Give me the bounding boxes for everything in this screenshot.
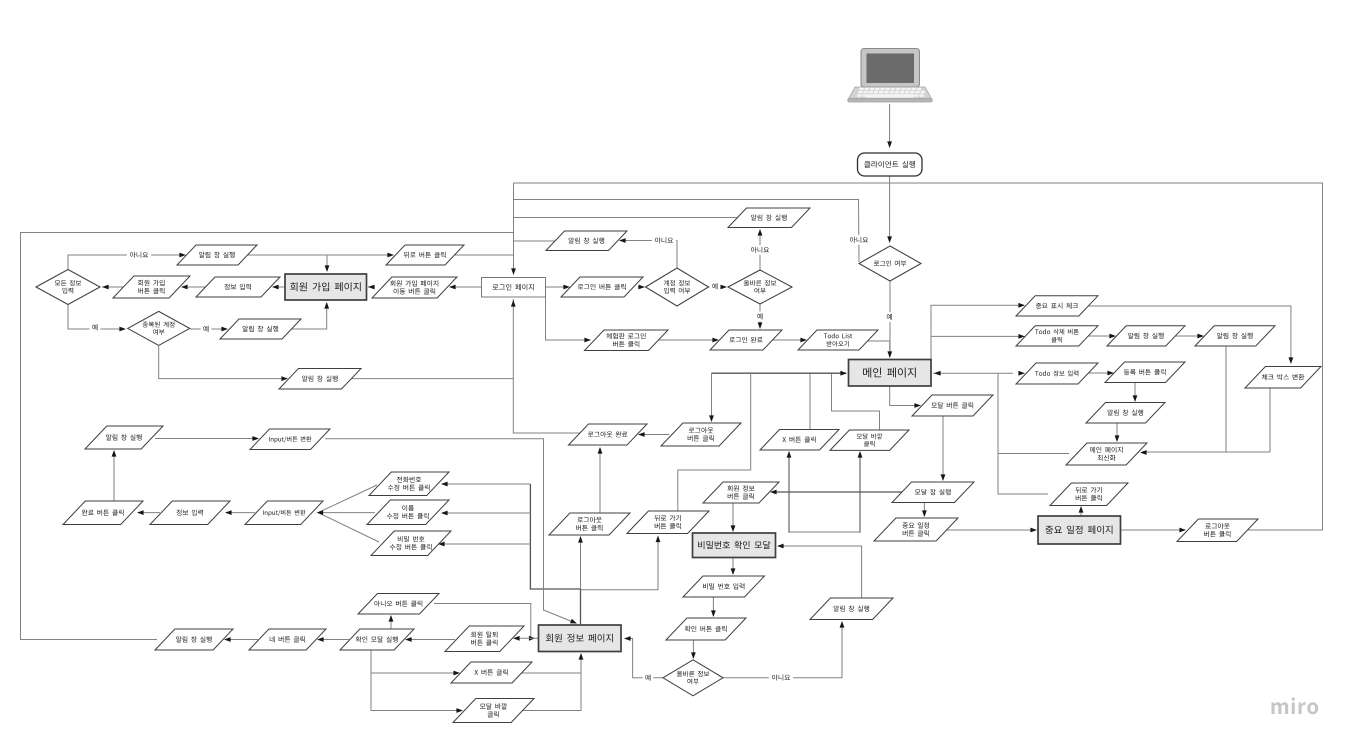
wire valid2 yes branch xyxy=(625,639,663,678)
arrowhead into main page left xyxy=(840,371,847,376)
node pw confirm modal 비밀번호 확인 모달 xyxy=(693,533,776,558)
arrowhead into alert-left right edge xyxy=(619,238,626,243)
io P47 알림 창 실행 xyxy=(155,629,233,650)
decision D1 모든 정보 입력 xyxy=(36,270,100,305)
wire withdraw to confirm-modal xyxy=(407,639,455,641)
wire member-info-button to pw modal xyxy=(732,503,734,531)
wire alert P37 to pw modal xyxy=(778,546,862,598)
wire info-input to signup-button xyxy=(183,286,206,288)
io P16 알림 창 실행 xyxy=(1107,326,1185,346)
wire x-button2 riser xyxy=(521,654,581,673)
decision D3 계정 정보 입력 여부 xyxy=(646,268,709,306)
wire input-transform-top to member-info xyxy=(325,439,576,623)
io P50 회원 탈퇴 버튼 클릭 xyxy=(445,626,524,652)
wire todo-delete to alert xyxy=(1087,335,1114,337)
wire pw modal to pw-input xyxy=(732,557,734,574)
io P2 뒤로 버튼 클릭 xyxy=(386,245,464,265)
arrowhead into main page right xyxy=(934,371,941,376)
io P14 중요 표시 체크 xyxy=(1016,296,1098,316)
io P40 완료 버튼 클릭 xyxy=(63,501,143,525)
node member info page 회원 정보 페이지 xyxy=(539,625,622,652)
wire alert P17 down xyxy=(1225,346,1227,452)
arrowhead into x-button bottom xyxy=(787,451,792,458)
wire back-button riser to main xyxy=(678,373,751,511)
wire member-info to fans riser xyxy=(530,484,580,624)
wire name-edit diagonal xyxy=(318,512,375,514)
wire member-info to logout-left xyxy=(580,537,582,589)
arrowhead into pw-input top xyxy=(731,568,736,575)
io P33 로그아웃 버튼 클릭 xyxy=(549,513,630,535)
arrowhead into confirm-modal right xyxy=(405,637,412,642)
label 아니요 D6 xyxy=(769,673,793,683)
arrowhead into alert P47 right xyxy=(224,637,231,642)
io P7 알림 창 실행 xyxy=(279,369,361,390)
arrowhead into alert P7 xyxy=(281,376,288,381)
wire all-info no branch xyxy=(68,255,184,269)
wire todo-fetch to main page xyxy=(866,341,890,357)
arrowhead into login-check diamond xyxy=(887,236,892,243)
arrowhead into alert P16 xyxy=(1109,334,1116,339)
wire member-info to withdraw xyxy=(515,637,539,639)
arrowhead into logout-complete bottom xyxy=(598,447,603,454)
node schedule page 중요 일정 페이지 xyxy=(1038,516,1121,544)
wire back(schedule) riser xyxy=(998,373,1048,494)
io P9 알림 창 실행 xyxy=(728,208,810,228)
wire signup to move-button xyxy=(451,286,482,288)
io P20 체크 박스 변환 xyxy=(1245,367,1321,389)
label 예 D2 xyxy=(201,324,212,334)
arrowhead into important-check xyxy=(1018,303,1025,308)
wire login trunk vertical xyxy=(513,183,515,274)
wire checkbox down xyxy=(1269,388,1271,452)
wire register to alert P21 xyxy=(1134,382,1136,401)
wire main-refresh to riser xyxy=(998,453,1069,455)
io P23 뒤로 가기 버튼 클릭 xyxy=(1050,483,1128,506)
arrowhead into phone-edit xyxy=(441,482,448,487)
arrowhead into modal-open top xyxy=(941,474,946,481)
wire main page to modal-button xyxy=(890,386,919,406)
arrowhead into alert P17 xyxy=(1197,334,1204,339)
arrowhead into schedule-button top xyxy=(922,510,927,517)
io P49 확인 모달 실행 xyxy=(340,629,414,650)
io P34 뒤로 가기 버튼 클릭 xyxy=(627,511,709,534)
io P11 체험판 로그인 버튼 클릭 xyxy=(585,330,669,351)
wire modal-button to modal-open xyxy=(942,416,944,480)
io P45 비밀 번호 수정 버튼 클릭 xyxy=(371,531,451,556)
arrowhead into login page top xyxy=(511,268,516,275)
arrowhead into logout-button P31 top xyxy=(709,415,714,422)
wire branch todo-delete xyxy=(931,335,1023,337)
wire back-button to trunk xyxy=(453,254,514,256)
wire info-input2 to complete-button xyxy=(138,512,160,514)
io P18 Todo 정보 입력 xyxy=(1016,363,1098,384)
io P38 알림 창 실행 xyxy=(85,426,163,449)
io P26 중요 일정 버튼 클릭 xyxy=(874,518,958,541)
wire alert-top to trunk xyxy=(514,217,738,219)
arrowhead into logout-complete right xyxy=(638,432,645,437)
wire alert P16 to alert P17 xyxy=(1174,335,1202,337)
wire input-transform to info-input2 xyxy=(226,512,255,514)
arrowhead into pw-edit xyxy=(438,542,445,547)
io P43 전화번호 수정 버튼 클릭 xyxy=(369,472,449,496)
decision D4 올바른 정보 여부 xyxy=(728,270,792,304)
io P15 Todo 삭제 버튼 클릭 xyxy=(1016,326,1098,346)
wire into main-refresh right xyxy=(1142,451,1270,453)
io P1 알림 창 실행 xyxy=(177,245,257,265)
io P17 알림 창 실행 xyxy=(1195,326,1275,346)
decision D2 중복된 계정 여부 xyxy=(128,311,190,345)
io P44 이름 수정 버튼 클릭 xyxy=(367,500,449,525)
label 예 D4 xyxy=(755,312,766,322)
wire schedule page to back-button xyxy=(1080,507,1082,516)
decision D5 로그인 여부 xyxy=(859,246,921,281)
wire logout-left to logout-complete xyxy=(599,448,601,513)
wire confirm-modal to outside2 xyxy=(371,673,461,711)
wire alert P1 to signup/back xyxy=(248,254,392,256)
io P3 회원 가입 버튼 클릭 xyxy=(113,276,190,298)
wire valid yes branch xyxy=(759,304,761,328)
arrowhead into register-button xyxy=(1107,371,1114,376)
io P42 Input/버튼 변환 xyxy=(245,501,323,525)
wire main to logout-button xyxy=(711,373,713,421)
arrowhead into valid-diamond xyxy=(720,285,727,290)
wire login-check no branch xyxy=(514,200,860,263)
io P36 확인 버튼 클릭 xyxy=(666,618,746,640)
io P39 Input/버튼 변환 xyxy=(250,429,330,450)
arrowhead into yes-button right xyxy=(317,637,324,642)
arrowhead into alert P38 bottom xyxy=(112,450,117,457)
arrowhead into back-button P34 bottom xyxy=(656,536,661,543)
arrowhead into dup-account diamond xyxy=(119,327,126,332)
arrowhead into member-info bottom xyxy=(579,653,584,660)
wire logout-complete to login xyxy=(513,379,580,433)
wire laptop to client xyxy=(889,104,891,146)
arrowhead into member-info-button right xyxy=(770,490,777,495)
node login page 로그인 페이지 xyxy=(482,278,546,298)
io P30 회원 정보 버튼 클릭 xyxy=(703,482,779,503)
wire confirm-modal to x-button2 xyxy=(371,650,458,673)
wire phone-edit diagonal xyxy=(318,485,377,513)
wire alert P21 to main-refresh xyxy=(1116,423,1118,441)
arrowhead into todo-fetch xyxy=(800,338,807,343)
arrowhead into input-transform right xyxy=(317,510,324,515)
arrowhead into input-transform-top left xyxy=(252,436,259,441)
wire login-complete to todo-fetch xyxy=(771,339,805,341)
label 예 D3-D4 xyxy=(710,282,721,292)
wire main page riser xyxy=(931,305,1023,359)
arrowhead into main-refresh top xyxy=(1115,435,1120,442)
wire important-check to checkbox xyxy=(1087,306,1291,362)
arrowhead into signup page top xyxy=(325,265,330,272)
io P48 네 버튼 클릭 xyxy=(249,629,326,650)
arrowhead into checkbox top xyxy=(1289,357,1294,364)
arrowhead into signup-button right edge xyxy=(181,285,188,290)
arrowhead into withdraw right xyxy=(513,636,520,641)
arrowhead into login-button xyxy=(563,285,570,290)
io P28 X 버튼 클릭 xyxy=(760,430,839,451)
label 예 D1 xyxy=(90,323,101,333)
wire alert P6 to signup bottom xyxy=(290,303,327,329)
io P31 로그아웃 버튼 클릭 xyxy=(661,423,741,446)
wire x-button riser xyxy=(788,452,790,532)
arrowhead into account-diamond xyxy=(638,285,645,290)
arrowhead into signup page bottom xyxy=(324,302,329,309)
arrowhead into alert P1 left edge xyxy=(179,253,186,258)
arrowhead into todo-delete xyxy=(1018,334,1025,339)
arrowhead into no-button bottom xyxy=(389,615,394,622)
wire all-info yes branch xyxy=(68,305,120,329)
arrowhead into login-complete top xyxy=(758,322,763,329)
arrowhead into pw modal right xyxy=(777,544,784,549)
io P37 알림 창 실행 xyxy=(810,598,893,620)
arrowhead into info-input2 right xyxy=(225,510,232,515)
arrowhead into name-edit xyxy=(441,511,448,516)
wire fan phone xyxy=(442,483,530,485)
arrowhead into alert P6 xyxy=(221,327,228,332)
wire modal to x-button riser xyxy=(789,532,860,533)
wire down into signup top xyxy=(326,255,328,271)
io P6 알림 창 실행 xyxy=(220,319,301,339)
io P51 X 버튼 클릭 xyxy=(451,662,532,683)
label 아니요 D3 xyxy=(652,236,676,246)
wire login page to checked-login xyxy=(546,297,590,340)
arrowhead into main page top xyxy=(887,351,892,358)
io P24 모달 버튼 클릭 xyxy=(912,395,993,416)
wire no-button to member-info xyxy=(434,604,534,639)
arrowhead into all-info diamond xyxy=(102,285,109,290)
io P29 모달 바깥 클릭 xyxy=(830,430,909,450)
wire fan password xyxy=(439,543,530,545)
laptop icon xyxy=(848,49,933,103)
arrowhead into x-button2 left xyxy=(453,671,460,676)
wire schedule-button to schedule page xyxy=(945,529,1036,531)
wire main right to todo-input xyxy=(933,372,1013,374)
wire x-button to main xyxy=(809,373,811,430)
wire account-diamond to valid-diamond xyxy=(708,286,726,288)
arrowhead into confirm-button xyxy=(711,610,716,617)
wire fan name xyxy=(442,512,530,514)
arrowhead into modal-button xyxy=(914,403,921,408)
arrowhead into login page bottom xyxy=(511,300,516,307)
wire trunk into main page xyxy=(712,372,847,374)
wire yes-button to alert P47 xyxy=(226,639,258,641)
wire checked-login to login-complete xyxy=(658,339,717,341)
arrowhead into member-info page right xyxy=(624,636,631,641)
arrowhead into signup page right edge xyxy=(368,285,375,290)
node main page 메인 페이지 xyxy=(849,360,932,387)
io P32 로그아웃 완료 xyxy=(569,424,648,445)
label 예 D6 xyxy=(643,673,654,683)
wire account-info no branch xyxy=(621,241,677,270)
arrowhead into member-info left xyxy=(529,636,536,641)
arrowhead into checked-login xyxy=(584,338,591,343)
wire confirm-modal to no-button xyxy=(390,616,392,629)
arrowhead into todo-input xyxy=(1018,371,1025,376)
wire alert-left to trunk xyxy=(514,240,556,242)
label 아니요 D1 xyxy=(127,250,151,260)
wire login page to login-button xyxy=(546,286,569,288)
io P5 회원 가입 페이지 이동 버튼 클릭 xyxy=(372,277,457,298)
decision D6 올바른 정보 여부 2 xyxy=(663,660,723,696)
wire valid no branch xyxy=(759,230,761,270)
arrowhead into alert-top bottom xyxy=(758,229,763,236)
arrowhead into alert P21 xyxy=(1133,395,1138,402)
arrowhead into move-button right edge xyxy=(449,285,456,290)
io P46 아니오 버튼 클릭 xyxy=(358,594,439,615)
wire signup page to info-input xyxy=(274,286,285,288)
wire member-info to back-button P34 xyxy=(581,537,659,590)
label 아니요 D5 xyxy=(847,235,871,245)
arrowhead into info-input right edge xyxy=(272,285,279,290)
wire modal-open to schedule-button xyxy=(923,502,925,516)
wire client to login-check diamond xyxy=(889,176,891,241)
wire login-button to account-diamond xyxy=(638,286,644,288)
wire confirm-modal to yes-button xyxy=(319,639,349,641)
wire logout-button to logout-complete xyxy=(640,434,669,436)
node client-run 클라이언트 실행 xyxy=(858,153,923,176)
io P8 알림 창 실행 xyxy=(546,231,627,251)
arrowhead into login-complete left xyxy=(712,338,719,343)
wire dup-account yes xyxy=(190,328,226,330)
wire frame-top from logout to login trunk xyxy=(514,183,1323,530)
arrowhead into member-info top diag xyxy=(570,619,578,626)
wire outside-click to main xyxy=(832,373,880,430)
wire confirm-button to valid-diamond2 xyxy=(692,640,694,658)
arrowhead into main-refresh right xyxy=(1140,450,1147,455)
wire login-check yes branch xyxy=(889,281,891,357)
arrowhead into pw modal top xyxy=(731,525,736,532)
wire outside-click riser xyxy=(859,452,861,532)
arrowhead into back-button P23 bottom xyxy=(1079,506,1084,513)
wire pw-edit diagonal xyxy=(318,513,379,542)
io P12 로그인 완료 xyxy=(710,330,782,350)
arrowhead into alert P37 bottom xyxy=(840,621,845,628)
wire alert P38 to input-transform-top xyxy=(155,438,257,440)
wire complete-button to alert P38 xyxy=(113,451,115,501)
io P21 알림 창 실행 xyxy=(1086,403,1165,424)
io P25 모달 창 실행 xyxy=(892,482,974,503)
io P10 로그인 버튼 클릭 xyxy=(561,277,643,297)
wire valid2 no branch xyxy=(723,622,842,678)
wire signup-button to all-info diamond xyxy=(102,286,124,288)
io P19 등록 버튼 클릭 xyxy=(1105,362,1185,383)
arrowhead into valid-diamond2 xyxy=(691,652,696,659)
arrowhead into outside-click bottom xyxy=(858,451,863,458)
wire todo-input to register xyxy=(1087,372,1112,374)
miro logo xyxy=(1272,697,1319,714)
wire outside2 riser xyxy=(522,673,581,711)
arrowhead into client box xyxy=(887,141,892,148)
node signup page 회원 가입 페이지 xyxy=(285,274,367,300)
arrowhead into logout-left bottom xyxy=(578,536,583,543)
wire schedule page to logout xyxy=(1120,529,1184,531)
wire pw-input to confirm-button xyxy=(712,597,714,616)
wire move-button to signup page xyxy=(368,286,374,288)
wire alert P7 to login bottom xyxy=(351,299,513,379)
io P4 정보 입력 xyxy=(196,277,280,297)
arrowhead into complete-button right xyxy=(137,510,144,515)
label 예 D5 xyxy=(884,312,895,322)
arrowhead into logout P27 left xyxy=(1179,528,1186,533)
io P41 정보 입력 xyxy=(150,501,230,525)
arrowhead into back-button left edge xyxy=(387,253,394,258)
arrowhead into schedule page left xyxy=(1030,528,1037,533)
wire dup-account no branch xyxy=(159,346,286,379)
wire frame-left from alert to login trunk xyxy=(21,233,514,640)
label 아니요 D4 xyxy=(748,245,772,255)
wire modal-open to member-info-button xyxy=(772,491,903,493)
io P35 비밀 번호 입력 xyxy=(683,576,765,597)
io P52 모달 바깥 클릭 xyxy=(453,699,534,723)
arrowhead into outside2 left xyxy=(456,708,463,713)
io P13 Todo List 받아오기 xyxy=(798,330,878,350)
io P22 메인 페이지 최신화 xyxy=(1066,443,1147,465)
io P27 로그아웃 버튼 클릭 xyxy=(1177,519,1258,542)
